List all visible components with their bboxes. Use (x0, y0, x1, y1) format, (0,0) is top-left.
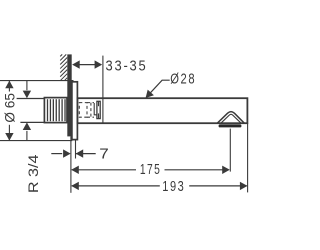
svg-text:193: 193 (162, 179, 185, 195)
wall line extended below flange (70, 136, 72, 192)
dim 193 (72, 185, 247, 187)
svg-text:R 3/4: R 3/4 (25, 154, 41, 193)
wall face bar (67, 54, 71, 136)
dim R3/4 arrows (26, 81, 28, 141)
svg-text:7: 7 (99, 146, 109, 162)
internal sleeve (solid) (94, 101, 100, 118)
aerator face bar (219, 124, 242, 127)
svg-text:33-35: 33-35 (106, 58, 148, 74)
dim 7 (51, 153, 95, 155)
svg-text:175: 175 (140, 162, 161, 178)
spout body (78, 98, 248, 123)
escutcheon flange (72, 82, 78, 140)
supply pipe bottom line (20, 121, 45, 123)
wall hatch (60, 54, 67, 80)
thread hatch lines (48, 99, 66, 121)
svg-text:Ø28: Ø28 (170, 71, 196, 87)
aerator cone outer (217, 112, 244, 124)
flange face extension line (75, 140, 77, 159)
threaded nipple R3/4 (44, 98, 67, 123)
dim 175 (72, 169, 229, 171)
dim 33-35 line (74, 64, 101, 66)
hidden internal housing (dashed) (79, 103, 94, 118)
dim leader O28 (146, 80, 170, 97)
dim O65 extension+line (0, 81, 74, 141)
svg-text:Ø 65: Ø 65 (1, 93, 17, 123)
supply pipe top line (17, 98, 45, 100)
33-35 extension line through spout (102, 56, 104, 124)
aerator cone inner (221, 114, 241, 123)
